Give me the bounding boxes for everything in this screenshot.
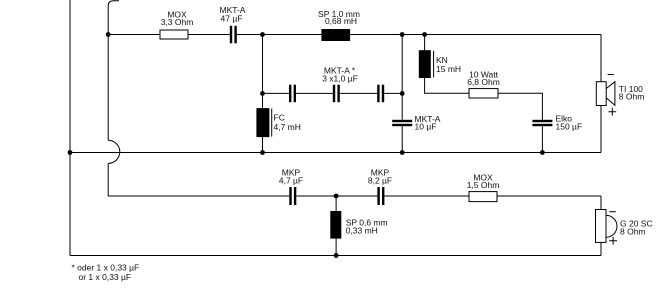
wire: second vertical lower part to woofer branch bbox=[107, 163, 109, 196]
svg-text:8 Ohm: 8 Ohm bbox=[620, 227, 646, 237]
capacitor MKP 4,7 uF bbox=[279, 168, 303, 206]
svg-text:4,7 µF: 4,7 µF bbox=[279, 176, 303, 186]
node: cap chain right junction bbox=[400, 91, 405, 96]
node: return rail left junction bbox=[68, 150, 73, 155]
node: bottom rail at SP coil bbox=[334, 253, 339, 258]
svg-text:150 µF: 150 µF bbox=[556, 122, 583, 132]
wire: woofer lower lead to bottom rail bbox=[600, 242, 602, 255]
svg-text:15 mH: 15 mH bbox=[436, 64, 461, 74]
node: top rail at KN branch bbox=[422, 32, 427, 37]
node: return rail at Elko bbox=[540, 150, 545, 155]
node: return rail at x=402 bbox=[400, 150, 405, 155]
inductor SP 1,0 mm 0,68 mH bbox=[318, 9, 360, 41]
wire: vertical branch at x=262 (47uF node down to return rail) bbox=[262, 35, 264, 153]
svg-text:* oder 1 x 0,33 µF: * oder 1 x 0,33 µF bbox=[72, 263, 140, 273]
speaker G 20 SC 8 Ohm (dome) bbox=[596, 210, 653, 245]
wire: woofer positive drop bbox=[600, 196, 602, 210]
wire: woofer feed rail bbox=[108, 195, 601, 197]
svg-text:or 1 x 0,33 µF: or 1 x 0,33 µF bbox=[79, 272, 132, 282]
wire: from 6,8 Ohm resistor to Elko branch bbox=[498, 93, 542, 120]
capacitor MKT-A 47 uF bbox=[220, 5, 246, 43]
resistor MOX 3,3 Ohm bbox=[160, 10, 193, 39]
wire: tweeter lower lead bbox=[600, 106, 602, 153]
wire: second input vertical with top bend bbox=[108, 1, 119, 141]
inductor SP 0,6 mm 0,33 mH bbox=[330, 211, 387, 239]
svg-text:8 Ohm: 8 Ohm bbox=[619, 92, 645, 102]
capacitor MKT-A 3 x 1,0 uF (second of three) bbox=[322, 66, 358, 103]
wire: KN coil branch down from top rail bbox=[425, 35, 469, 94]
capacitor MKP 8,2 uF bbox=[368, 168, 392, 206]
capacitor MKT-A 3 x 1,0 uF (first of three) bbox=[289, 85, 296, 103]
capacitor MKT-A 3 x 1,0 uF (third of three) bbox=[377, 85, 384, 103]
resistor 10 Watt 6,8 Ohm bbox=[467, 70, 500, 99]
capacitor Elko 150 uF bbox=[532, 114, 582, 132]
capacitor MKT-A 10 uF bbox=[392, 114, 441, 132]
svg-text:3,3 Ohm: 3,3 Ohm bbox=[161, 17, 194, 27]
note: footnote alternative value bbox=[72, 263, 140, 283]
inductor KN 15 mH (with core line) bbox=[419, 50, 461, 78]
node: top rail at x=402 bbox=[400, 32, 405, 37]
wire: vertical branch at x=402 with 10uF cap bbox=[401, 35, 403, 153]
svg-text:8,2 µF: 8,2 µF bbox=[368, 176, 392, 186]
svg-text:6,8 Ohm: 6,8 Ohm bbox=[467, 77, 500, 87]
inductor FC 4,7 mH (with core line) bbox=[256, 108, 301, 137]
speaker TI 100 8 Ohm (tweeter) bbox=[596, 75, 644, 116]
svg-text:1,5 Ohm: 1,5 Ohm bbox=[467, 180, 500, 190]
wire: Elko lower lead to return rail bbox=[541, 126, 543, 152]
resistor MOX 1,5 Ohm bbox=[467, 173, 500, 202]
node: return rail at x=262 bbox=[260, 150, 265, 155]
wire: top rail (tweeter feed) bbox=[108, 34, 601, 36]
svg-text:0,68 mH: 0,68 mH bbox=[325, 16, 357, 26]
svg-text:4,7 mH: 4,7 mH bbox=[274, 122, 301, 132]
svg-text:47 µF: 47 µF bbox=[221, 13, 243, 23]
svg-text:FC: FC bbox=[274, 113, 285, 123]
svg-text:3 x1,0 µF: 3 x1,0 µF bbox=[322, 74, 358, 84]
node: 47uF output junction bbox=[260, 32, 265, 37]
wire: series capacitor branch (3 x 1,0 uF) bbox=[263, 92, 403, 94]
svg-text:0,33 mH: 0,33 mH bbox=[346, 226, 378, 236]
wire: tweeter section return rail bbox=[70, 152, 601, 154]
node: cap chain left junction bbox=[260, 91, 265, 96]
node: top rail / input junction bbox=[106, 32, 111, 37]
wire: left input vertical rail bbox=[69, 0, 71, 256]
wire: bottom rail to woofer bbox=[70, 255, 601, 257]
wire: tweeter positive drop from top rail bbox=[600, 35, 602, 82]
svg-text:10 µF: 10 µF bbox=[415, 122, 437, 132]
node: woofer rail at SP coil bbox=[334, 194, 339, 199]
wire: SP 0,33mH coil branch bbox=[335, 196, 337, 256]
wire: crossover hop arc over lower tweeter rail bbox=[108, 140, 120, 163]
